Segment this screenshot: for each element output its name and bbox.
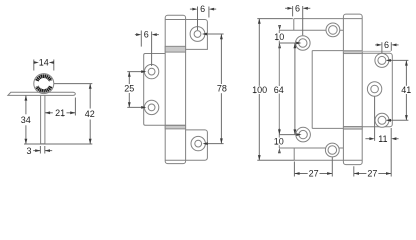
- svg-text:6: 6: [295, 3, 300, 13]
- hole E: [375, 53, 389, 67]
- knuckle band lower: [165, 125, 185, 129]
- horizontal leaf (edge view): [8, 92, 75, 95]
- svg-text:25: 25: [124, 84, 134, 94]
- bottom right leaf: [165, 130, 207, 160]
- dim 64: [274, 43, 297, 135]
- svg-text:6: 6: [200, 4, 205, 14]
- hole A: [296, 36, 311, 51]
- knuckle band upper: [165, 46, 185, 52]
- hole left lower: [144, 100, 158, 114]
- dim 21: [45, 98, 76, 119]
- hole left upper: [144, 64, 158, 78]
- svg-text:100: 100: [252, 85, 267, 95]
- svg-text:14: 14: [39, 58, 49, 68]
- svg-text:6: 6: [144, 30, 149, 40]
- dim 34: [21, 95, 31, 144]
- hole top-right: [190, 27, 205, 42]
- vertical leaf (edge view): [41, 95, 45, 143]
- hole F2: [375, 113, 389, 127]
- knuckle band upper right fig: [343, 51, 362, 54]
- dim 3: [26, 146, 52, 156]
- dim 42: [24, 84, 95, 144]
- svg-text:10: 10: [274, 137, 284, 147]
- svg-text:3: 3: [26, 146, 31, 156]
- barrel column right fig: [343, 14, 362, 165]
- dim 14: [34, 58, 54, 71]
- dim 27 (bottom left): [294, 157, 332, 178]
- hole A2: [296, 127, 311, 142]
- hole bottom-right: [191, 136, 205, 150]
- left leaf: [144, 54, 186, 126]
- dim 25: [124, 70, 146, 109]
- svg-text:42: 42: [85, 109, 95, 119]
- knuckle band lower right fig: [343, 127, 362, 130]
- svg-text:11: 11: [378, 134, 387, 144]
- dim 6 (top, middle fig): [190, 4, 216, 30]
- top pin joint line: [165, 19, 185, 21]
- dim 6 (top left, right fig): [285, 3, 310, 35]
- dim 6 (right fig right): [375, 40, 399, 53]
- hole B: [326, 23, 340, 37]
- dim 27 (bottom right): [354, 128, 391, 179]
- dim 6 (left, middle fig): [135, 30, 159, 66]
- dim 100: [252, 19, 294, 161]
- svg-text:21: 21: [55, 108, 65, 118]
- dim 10 (bottom): [274, 128, 302, 153]
- hole F: [367, 82, 381, 96]
- dim 78: [202, 33, 227, 145]
- hole B2: [325, 143, 339, 157]
- right leaf: [343, 51, 392, 126]
- front leaf outline: [279, 30, 343, 148]
- back leaf top sliver: [294, 19, 344, 31]
- svg-text:34: 34: [21, 115, 31, 125]
- barrel knurled circle: [34, 74, 54, 94]
- svg-text:10: 10: [274, 32, 284, 42]
- back leaf bottom sliver: [294, 148, 362, 160]
- svg-text:27: 27: [367, 169, 377, 179]
- svg-text:64: 64: [274, 85, 284, 95]
- window cutout: [312, 51, 343, 129]
- dim 11: [365, 97, 398, 144]
- top pin joint line right fig: [343, 18, 362, 20]
- svg-text:6: 6: [384, 40, 389, 50]
- dim 10 (top): [274, 25, 301, 48]
- svg-text:78: 78: [217, 84, 227, 94]
- barrel column: [165, 15, 185, 163]
- dim 41: [386, 59, 412, 122]
- svg-text:27: 27: [309, 169, 319, 179]
- top right leaf: [186, 20, 208, 50]
- svg-text:41: 41: [401, 85, 411, 95]
